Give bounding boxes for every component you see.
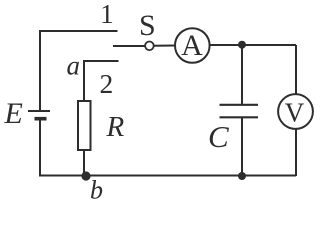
wire: battery E positive to switch contact 1 xyxy=(40,31,118,110)
svg-text:C: C xyxy=(208,119,229,154)
ammeter A xyxy=(175,28,210,63)
capacitor C xyxy=(220,105,259,118)
junction: capacitor bottom on rail xyxy=(238,172,246,180)
wire: bottom rail from E to right side xyxy=(39,175,296,177)
svg-text:V: V xyxy=(285,98,305,128)
wire: switch contact 2 to resistor R top xyxy=(84,61,119,101)
resistor R xyxy=(78,101,91,150)
svg-text:a: a xyxy=(67,51,81,81)
wire: switch pivot to ammeter A xyxy=(154,45,175,47)
svg-text:A: A xyxy=(181,29,203,62)
wire: resistor R bottom to node b xyxy=(83,150,85,176)
wire: capacitor C down to bottom rail xyxy=(241,118,243,177)
wire: switch arm xyxy=(113,45,145,47)
voltmeter V xyxy=(278,94,313,129)
wire: right side down to voltmeter V xyxy=(295,45,297,94)
junction: node at ammeter output / capacitor top xyxy=(238,41,246,49)
svg-text:S: S xyxy=(139,9,156,42)
svg-text:R: R xyxy=(106,111,125,143)
svg-text:E: E xyxy=(4,97,23,130)
svg-text:2: 2 xyxy=(100,68,114,99)
wire: battery E negative down to bottom rail xyxy=(39,120,41,176)
wire: top node down to capacitor C xyxy=(241,45,243,105)
wire: ammeter A to top-right corner xyxy=(210,44,297,46)
wire: voltmeter V down to bottom rail xyxy=(295,129,297,176)
junction: node b xyxy=(81,171,90,180)
svg-text:b: b xyxy=(90,176,103,201)
battery E xyxy=(28,111,50,119)
svg-text:1: 1 xyxy=(100,0,114,29)
switch S pivot xyxy=(145,42,154,51)
